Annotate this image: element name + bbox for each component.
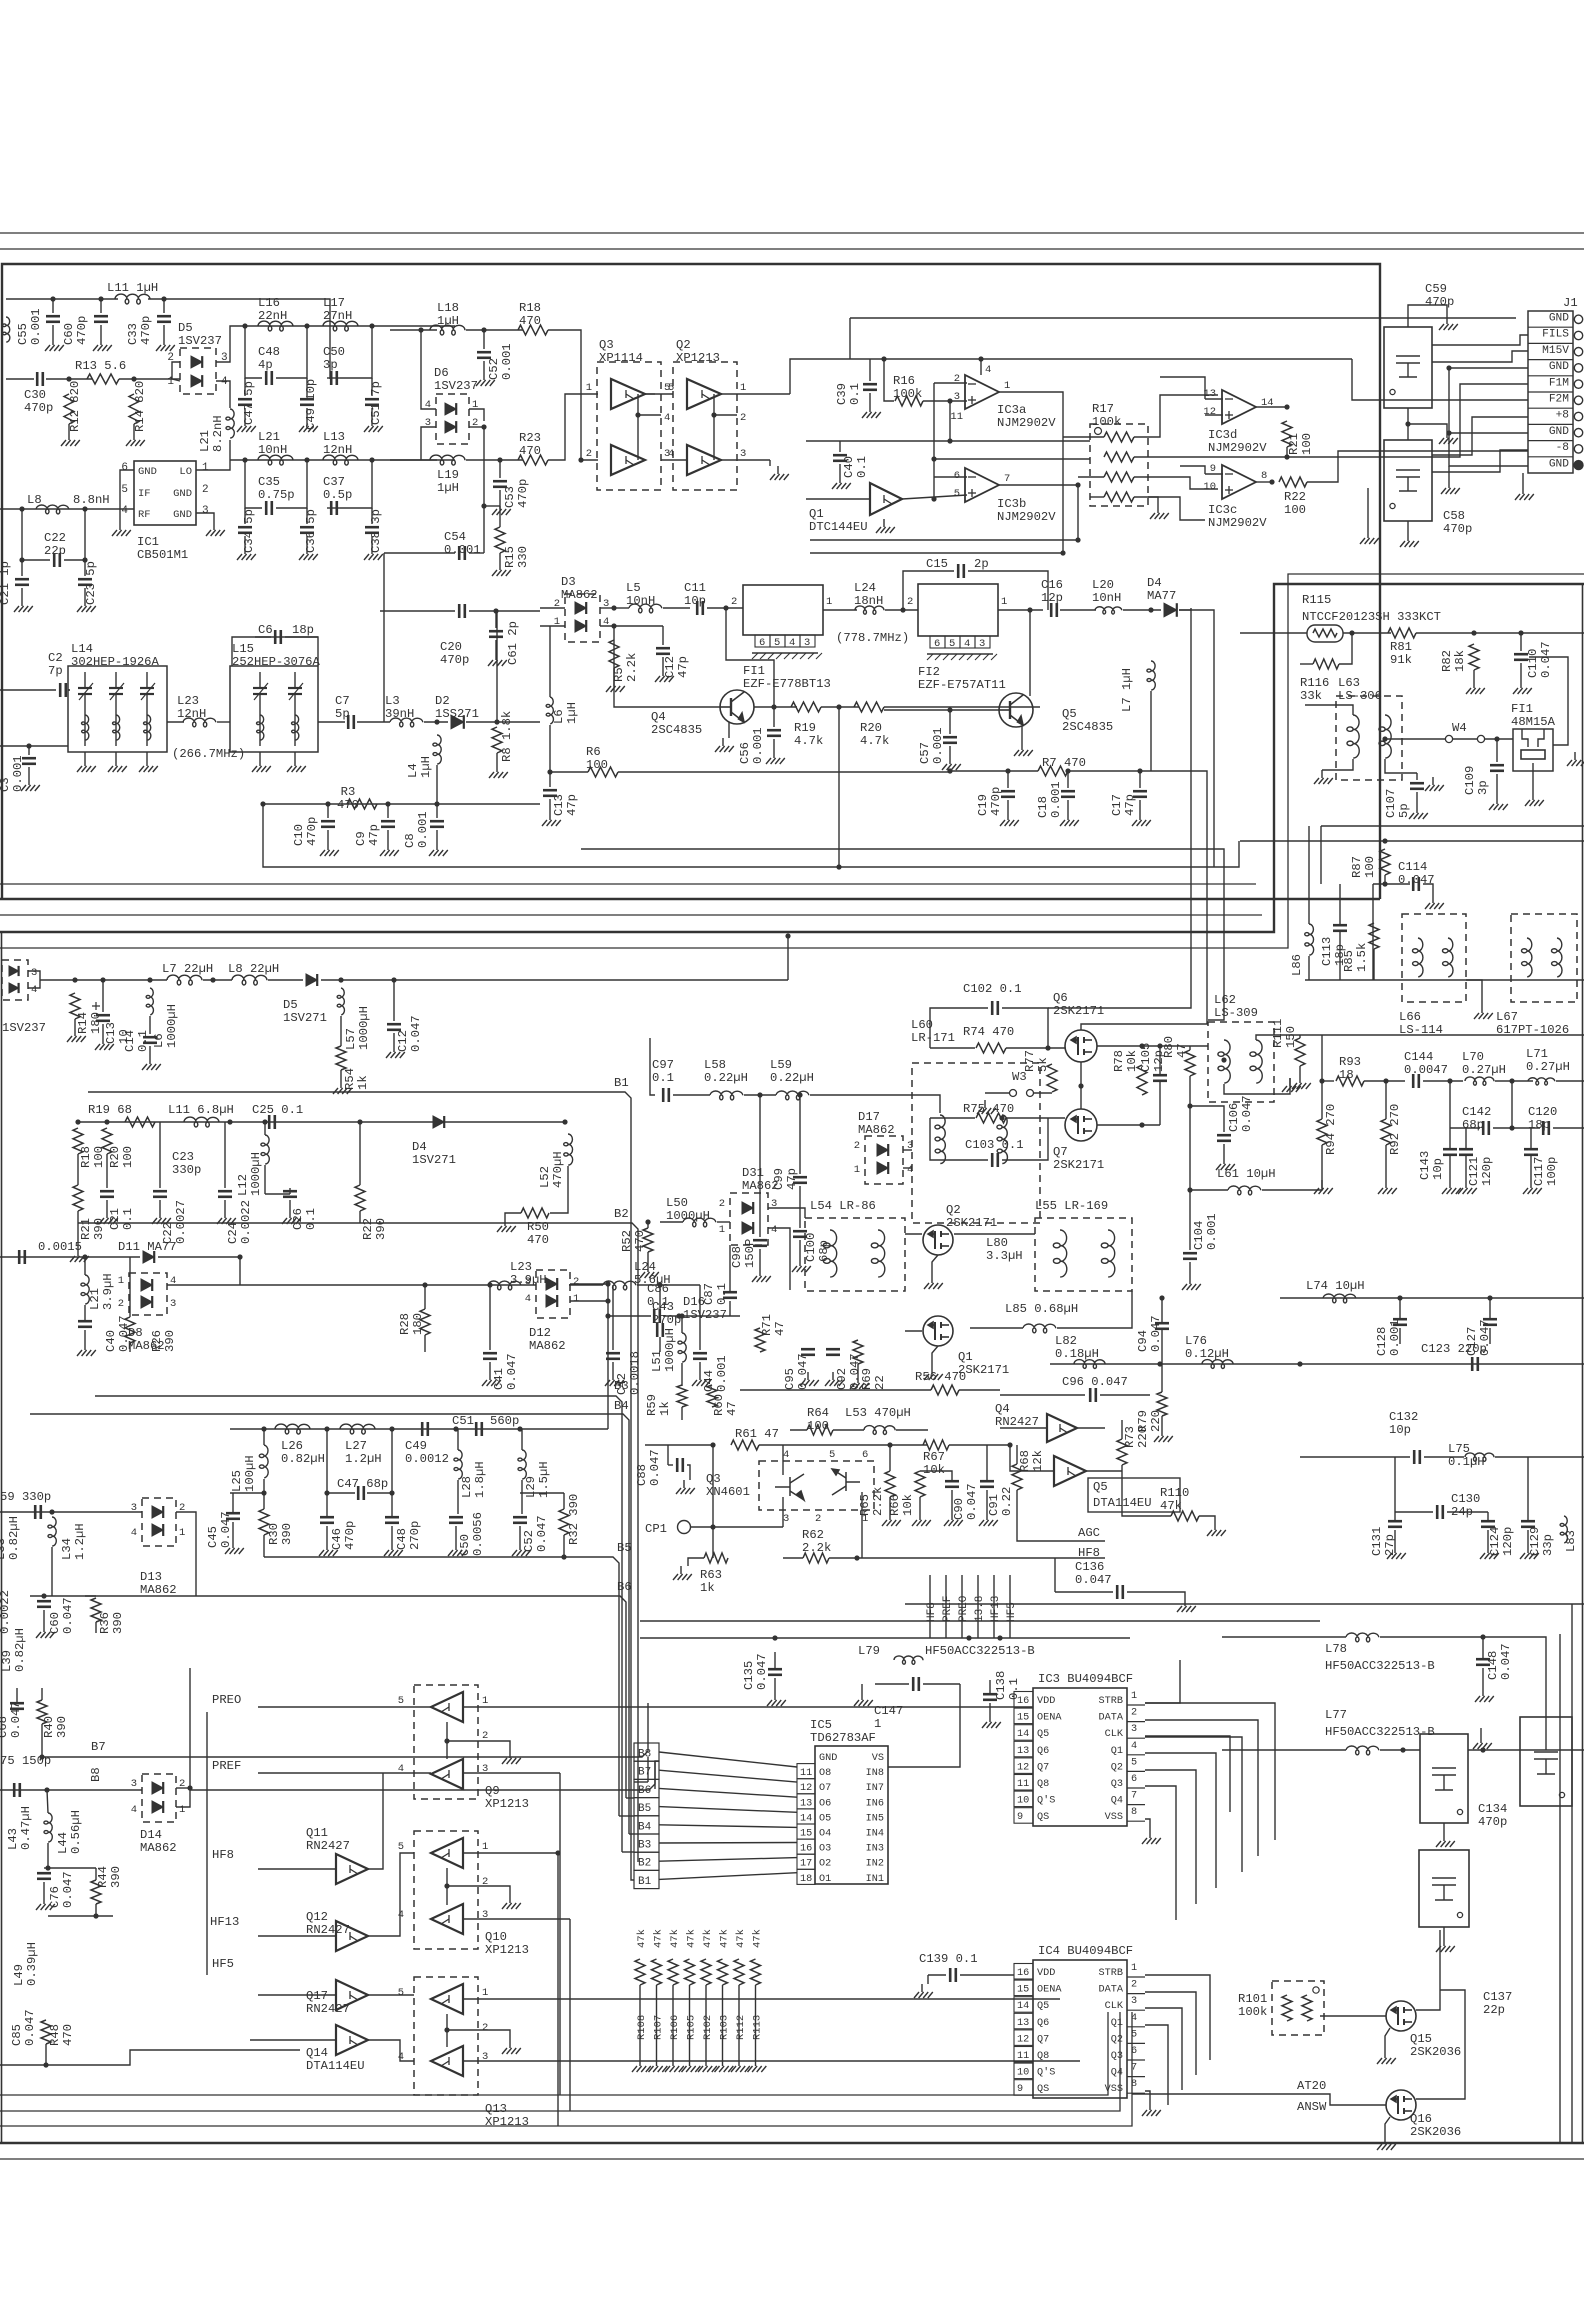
wire C86 r (663, 1315, 740, 1317)
wire C54 row (384, 552, 455, 554)
node chain1 b (304, 323, 309, 328)
wire L20 out (1123, 609, 1161, 611)
wire nest 1 (1048, 608, 1191, 1008)
wire L24 b (885, 609, 918, 611)
wire C142 r (1493, 1127, 1512, 1129)
ground L63 (1314, 770, 1333, 784)
C137 plate b (1432, 1884, 1456, 1886)
wire C52 gnd (483, 361, 485, 372)
node C98 top (757, 1092, 762, 1097)
svg-text:17: 17 (800, 1859, 812, 1870)
node IC3b out (1075, 482, 1080, 487)
wire gnd drop (1367, 488, 1369, 530)
capacitor C57 (943, 737, 957, 743)
node supply b (978, 356, 983, 361)
svg-text:11: 11 (950, 411, 963, 423)
wire L14-1 c (115, 694, 117, 746)
wire R17c l (1078, 476, 1104, 478)
ground C18 (1060, 812, 1079, 826)
ground C138 (982, 1714, 1001, 1728)
wire D3 out4 (600, 625, 663, 627)
node C99 top (797, 1092, 802, 1097)
svg-text:L83: L83 (1564, 1530, 1578, 1552)
wire R56 r (959, 1389, 1000, 1391)
ground C53 (492, 501, 511, 515)
ground C137 (1436, 1938, 1455, 1952)
wire R69 down (857, 1364, 859, 1375)
wire J1 F2M (1352, 359, 1528, 400)
wire C94 col (1161, 1298, 1163, 1323)
wire D5 out4 (216, 381, 230, 408)
wire IC3d minus (1205, 398, 1223, 400)
bus B1 into cell (631, 1740, 634, 1880)
node row1122 c (227, 1119, 232, 1124)
wire R52 gnd (647, 1252, 649, 1264)
svg-text:FILS: FILS (1542, 329, 1569, 341)
node Q4 out (771, 704, 776, 709)
svg-text:R7810k: R7810k (1112, 1050, 1139, 1072)
ground L78 right (1473, 1735, 1492, 1749)
ground C148 (1475, 1688, 1494, 1702)
thermistor R115 body (1307, 625, 1343, 642)
capacitor C90 0.047 (945, 1481, 959, 1487)
svg-text:7: 7 (1004, 473, 1010, 485)
svg-text:2: 2 (1131, 1708, 1137, 1719)
wire R5 gnd (613, 668, 615, 678)
wire R110 l (1122, 1471, 1171, 1516)
svg-text:Q7: Q7 (1037, 2034, 1049, 2045)
node FI1 in (723, 605, 728, 610)
svg-text:3: 3 (1131, 1724, 1137, 1735)
IC IC4 BU4094BCF (1033, 1960, 1127, 2098)
wire Q9b out (463, 1772, 560, 1774)
wire subrow2 (245, 460, 262, 508)
svg-text:+8: +8 (1556, 410, 1569, 422)
wire R68 t (1016, 1445, 1018, 1464)
svg-text:59 330p: 59 330p (0, 1490, 51, 1504)
FI2 pin cell 4 (960, 636, 975, 648)
wire R63 l (688, 1558, 704, 1566)
node R44 b (93, 1913, 98, 1918)
ground C121 (1458, 1180, 1477, 1194)
capacitor C130 24p (1437, 1505, 1443, 1519)
C134 plate b (1432, 1774, 1456, 1776)
wire J1 F1M (1287, 384, 1528, 457)
C58 plate b (1396, 476, 1420, 478)
ground C40 (832, 475, 851, 489)
resistor R17a (1104, 432, 1134, 442)
wire block rail (1305, 979, 1584, 981)
wire right bus a (1559, 1634, 1561, 2143)
IC IC3 BU4094BCF (1033, 1688, 1127, 1826)
buffer Q2a (687, 379, 721, 409)
capacitor C14m 0.1 (143, 1037, 157, 1043)
wire Q5 emitter (1021, 726, 1023, 742)
node row1638 b (966, 1635, 971, 1640)
svg-text:16: 16 (1017, 1968, 1029, 1979)
svg-text:2: 2 (1131, 1980, 1137, 1991)
svg-text:IN4: IN4 (866, 1829, 884, 1840)
ground C13m (95, 1036, 114, 1050)
IC4 pin lead R3 (1127, 2009, 1145, 2011)
wire C20 row (380, 610, 455, 612)
wire R93 r (1364, 1080, 1405, 1082)
IC5 pin cell 16 (797, 1839, 815, 1854)
R17 marker circle (1095, 428, 1102, 435)
svg-text:L86: L86 (1290, 954, 1304, 976)
tap HF5 (1009, 1575, 1011, 1638)
wire C10 gnd (327, 830, 329, 842)
wire Bcell to IC5 5 (659, 1842, 797, 1845)
bus B2 (78, 1223, 638, 1747)
wire C135 t (774, 1652, 776, 1669)
wire C44 gnd (699, 1362, 701, 1372)
svg-text:GND: GND (1549, 426, 1569, 438)
svg-text:Q1: Q1 (1111, 1746, 1123, 1757)
C134 plate a (1432, 1767, 1456, 1769)
wire R22 out (1307, 451, 1528, 482)
capacitor C104 (1183, 1253, 1197, 1259)
FI1 hatch 8 (816, 653, 822, 659)
IC3 pin lead R4 (1127, 1754, 1145, 1756)
bus cell B8 (634, 1743, 659, 1761)
inductor L77 (1346, 1746, 1379, 1755)
wire L57-R54 (340, 1016, 342, 1046)
wire C110 drop (1520, 633, 1522, 651)
wire C36 (306, 508, 308, 524)
diode left a (9, 966, 19, 976)
svg-text:B5: B5 (617, 1541, 632, 1555)
svg-text:R115: R115 (1302, 593, 1331, 607)
IC3 pin lead R3 (1127, 1737, 1145, 1739)
resistor R7 (1038, 766, 1068, 776)
svg-text:C27p: C27p (48, 651, 63, 678)
wire C134 gnd (1443, 1823, 1445, 1833)
capacitor C49 (300, 399, 314, 405)
crystal FI1 48M15A (1513, 729, 1553, 771)
wire C138 gnd (989, 1703, 991, 1714)
node D12 b (605, 1298, 610, 1303)
ground C76 (36, 1896, 55, 1910)
svg-text:R8 1.8k: R8 1.8k (500, 711, 514, 762)
ground C59 (1439, 316, 1458, 330)
wire D4 ext (1179, 609, 1191, 611)
wire C139 l (928, 1974, 946, 1976)
inductor L66 primary (1413, 938, 1424, 977)
capacitor C54 (459, 546, 465, 560)
svg-text:6: 6 (121, 462, 128, 474)
ground R17 (1150, 505, 1169, 519)
svg-text:C51 7p: C51 7p (369, 381, 383, 425)
wire Q2m gate (905, 1233, 922, 1235)
wire nest 4 (1214, 841, 1239, 867)
ground C48f (384, 1542, 403, 1556)
wire C68 t (16, 1688, 18, 1703)
IC3 pin cell L12 (1014, 1758, 1033, 1774)
node f d (453, 1426, 458, 1431)
wire row1493 l (230, 1492, 264, 1494)
CP1 terminal (678, 1521, 691, 1534)
resistor R112 47k (734, 1959, 744, 1985)
wire C60m gnd (43, 1610, 45, 1624)
svg-text:GND: GND (138, 466, 157, 478)
svg-text:C36 5p: C36 5p (304, 509, 318, 553)
wire IC3c in9 (1180, 466, 1205, 474)
wire row1257 (0, 1256, 140, 1258)
svg-text:DATA: DATA (1099, 1713, 1124, 1724)
svg-text:5: 5 (398, 1695, 404, 1707)
wire L59 out (810, 1095, 940, 1113)
svg-text:Q5: Q5 (1037, 1729, 1049, 1740)
wire R61 r (759, 1444, 928, 1446)
wire row 826 (1321, 825, 1584, 827)
inductor L53 470uH (864, 1426, 895, 1435)
wire subrow2c (327, 507, 340, 509)
J1 cell divider 4 (1528, 391, 1573, 393)
ground L14-0 (77, 758, 96, 772)
wire IC3c out (1256, 481, 1272, 483)
ground C22m (152, 1210, 171, 1224)
wire R14m gnd (74, 1019, 76, 1028)
inductor L83 (1560, 1516, 1567, 1543)
wire L15-1 gnd (294, 752, 296, 758)
svg-text:1: 1 (179, 1804, 185, 1816)
node supply a (881, 356, 886, 361)
trimmer cap L15-1 b (288, 693, 302, 695)
svg-text:O4: O4 (819, 1829, 831, 1840)
capacitor C35 (266, 501, 272, 515)
transistor Q4 2SC4835 (720, 690, 754, 724)
ground C44 (692, 1372, 711, 1386)
wire chain1 ext (390, 329, 437, 331)
feedthrough capacitor right (1520, 1717, 1572, 1806)
wire C56 (773, 707, 775, 727)
node R115 out (1349, 630, 1354, 635)
wire L62 row (1322, 1034, 1584, 1036)
inductor L17 (323, 321, 358, 331)
bus B3 into cell (622, 1851, 634, 1853)
ground R103 (715, 2062, 734, 2072)
inductor L16 (258, 321, 293, 331)
wire subrow2b (276, 460, 307, 508)
IC5 pin cell 12 (797, 1779, 815, 1794)
IC4 pin cell L9 (1014, 2080, 1033, 2096)
resistor R20m 100 (102, 1128, 112, 1154)
ground C136 (1177, 1598, 1196, 1612)
resistor network R17 (1090, 424, 1148, 506)
ground C100 (792, 1258, 811, 1272)
wire C50 gnd (455, 1526, 457, 1542)
W4 terminal a (1445, 735, 1452, 742)
ground R15 (492, 562, 511, 576)
capacitor C136 0.047 (1117, 1585, 1123, 1599)
wire R116 r (1339, 633, 1352, 664)
buffer pack Q10 XP1213 (414, 1831, 478, 1949)
wire R59 down (681, 1407, 683, 1420)
svg-text:-8: -8 (1556, 442, 1569, 454)
wire R44 b (95, 1904, 97, 1916)
ground C104 (1182, 1276, 1201, 1290)
ground C106 (1216, 1156, 1235, 1170)
svg-text:R44390: R44390 (96, 1866, 123, 1888)
wire L4 down (436, 765, 438, 804)
bus B3 ext (621, 1754, 623, 1852)
svg-text:L54 LR-86: L54 LR-86 (810, 1199, 876, 1213)
wire Q4 up to FI1 (726, 608, 774, 707)
wire C148 gnd (1482, 1668, 1484, 1688)
node L4 top (434, 719, 439, 724)
resistor R94 (1317, 1119, 1327, 1145)
bottom thick border (0, 2142, 1584, 2145)
transistor Q3b right (832, 1469, 860, 1495)
wire feedback riser (838, 707, 840, 867)
capacitor C95 0.047 (801, 1349, 815, 1355)
IC4 pin cell L11 (1014, 2047, 1033, 2063)
wire C120 r (1553, 1127, 1584, 1129)
capacitor C40 (833, 455, 847, 461)
svg-text:R56 470: R56 470 (915, 1370, 966, 1384)
wire R15 gnd (499, 553, 501, 562)
svg-text:R106: R106 (669, 2015, 681, 2040)
ground C38 (364, 546, 383, 560)
capacitor C147 1 (913, 1677, 919, 1691)
resistor R81 (1388, 628, 1416, 638)
wire opamp bottom1 (810, 539, 1078, 541)
capacitor C135 0.047 (768, 1669, 782, 1675)
ground C46 (319, 1542, 338, 1556)
ground R14 (126, 432, 145, 446)
svg-text:C1247p: C1247p (663, 656, 690, 678)
bus cell B5 (634, 1798, 659, 1816)
W4 terminal b (1477, 735, 1484, 742)
node L44 top (44, 1787, 49, 1792)
capacitor C2 (60, 683, 66, 697)
wire IC4 stair 4 (1145, 2025, 1168, 2105)
svg-text:Q8: Q8 (1037, 2051, 1049, 2062)
node R65 t (887, 1442, 892, 1447)
svg-text:3: 3 (202, 505, 209, 517)
wire R75 row l (930, 1117, 975, 1119)
bus B3 (95, 1396, 622, 1754)
FI1 hatch 4 (784, 653, 790, 659)
ground L14-1 (108, 758, 127, 772)
svg-text:CLK: CLK (1105, 2001, 1124, 2012)
svg-text:Q3: Q3 (1111, 2051, 1123, 2062)
trimmer cap L14-1 arrow (110, 683, 124, 700)
inductor L79 (894, 1656, 923, 1664)
svg-text:C139 0.1: C139 0.1 (919, 1952, 978, 1966)
ground C147 (854, 1692, 873, 1706)
capacitor C10 (321, 821, 335, 827)
inductor L7m (167, 975, 202, 985)
svg-text:F1M: F1M (1549, 377, 1569, 389)
ground Q16 (1377, 2136, 1396, 2150)
separator thin line a (0, 883, 1256, 885)
svg-text:HF8: HF8 (1078, 1546, 1100, 1560)
filter FI2 EZF-E757AT11 (918, 584, 998, 636)
wire R92 t (1385, 1081, 1387, 1119)
FI1 hatch 5 (792, 653, 798, 659)
bus B4 ext (628, 1761, 630, 1834)
resistor R3 (347, 799, 377, 809)
node f e (517, 1426, 522, 1431)
capacitor C120 (1543, 1121, 1549, 1135)
capacitor C56 (767, 730, 781, 736)
wire D8 out (167, 1284, 240, 1286)
wire C47 riser a (326, 1429, 328, 1493)
node C106 tap (1187, 1103, 1192, 1108)
feedthrough capacitor C59 (1384, 327, 1432, 408)
ground C90 (944, 1512, 963, 1526)
wire L6 riser (549, 626, 551, 697)
IC3 pin lead R8 (1127, 1820, 1145, 1822)
ground C52f (512, 1542, 531, 1556)
wire IC3b minus (934, 476, 967, 478)
wire L52 down (550, 1166, 568, 1213)
diode D4m 1SV271 (433, 1116, 444, 1128)
svg-text:L7 1µH: L7 1µH (1120, 668, 1134, 712)
transistor Q4b RN2427 (1047, 1414, 1077, 1442)
wire D3 in2 (540, 607, 565, 609)
diode D14b (152, 1801, 163, 1813)
J1 cell divider 5 (1528, 407, 1573, 409)
capacitor C91 0.22 (980, 1481, 994, 1487)
wire L34 down (51, 1547, 53, 1596)
svg-text:R101100k: R101100k (1238, 1992, 1267, 2019)
J1 contact circle 2 (1574, 348, 1582, 356)
wire R63 drop (712, 1527, 714, 1558)
wire C2 into L14 (68, 689, 70, 691)
wire IC3 q rows (1145, 1736, 1230, 1812)
svg-text:C970.1: C970.1 (652, 1058, 674, 1085)
wire row1285 b (569, 1284, 603, 1286)
svg-text:GND: GND (819, 1753, 837, 1764)
bus B2 into cell (637, 1747, 639, 1862)
svg-text:12: 12 (1017, 1762, 1029, 1773)
svg-text:5: 5 (398, 1841, 404, 1853)
FI1 hatch 3 (776, 653, 782, 659)
wire C11 b (707, 607, 743, 609)
node FI2 in (900, 607, 905, 612)
svg-text:L55 LR-169: L55 LR-169 (1035, 1199, 1108, 1213)
node R32 b (561, 1554, 566, 1559)
wire feedback row 849 (581, 848, 1214, 850)
wire C13 gnd (549, 799, 551, 812)
wire L63 out (1385, 738, 1445, 740)
wire R17a r (1134, 395, 1218, 437)
capacitor C113 (1333, 925, 1347, 931)
node L12 top (262, 1119, 267, 1124)
diode D5a (191, 356, 202, 368)
svg-text:Q'S: Q'S (1037, 2067, 1055, 2079)
wire subrow2d (340, 460, 372, 508)
wire FI2 out (998, 609, 1043, 611)
capacitor C12m 0.047 (387, 1024, 401, 1030)
capacitor C97 0.1 (663, 1088, 669, 1102)
capacitor C21m 0.1 (100, 1191, 114, 1197)
capacitor C128 0.001 (1393, 1319, 1407, 1325)
wire feedback down (263, 804, 839, 867)
trimmer cap L14-0 arrow (79, 683, 93, 700)
wire C144 r (1423, 1080, 1463, 1082)
diode D6b (445, 421, 456, 433)
svg-text:STRB: STRB (1099, 1696, 1123, 1707)
svg-text:Q1: Q1 (1111, 2018, 1123, 2029)
svg-text:13.8: 13.8 (974, 1596, 986, 1622)
wire Q3 mid (645, 393, 655, 395)
wire row1457 (1300, 1456, 1410, 1458)
inductor L60 primary (935, 1115, 946, 1164)
